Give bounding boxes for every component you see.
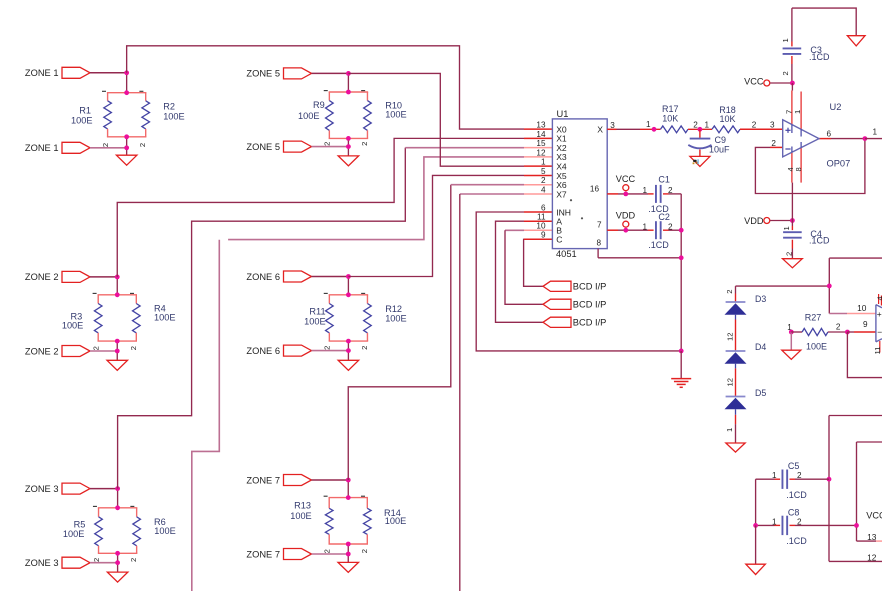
svg-text:10uF: 10uF: [709, 144, 730, 154]
svg-text:ZONE 6: ZONE 6: [246, 272, 280, 282]
svg-text:10K: 10K: [719, 114, 735, 124]
svg-text:3: 3: [610, 121, 615, 130]
svg-text:11: 11: [537, 213, 546, 222]
svg-text:ZONE 2: ZONE 2: [25, 346, 59, 356]
svg-text:10: 10: [857, 303, 867, 313]
svg-text:1: 1: [781, 38, 790, 42]
svg-text:2: 2: [323, 142, 332, 146]
svg-text:1: 1: [725, 428, 734, 432]
svg-text:D4: D4: [755, 342, 766, 352]
svg-text:2: 2: [360, 142, 369, 146]
svg-text:11: 11: [873, 347, 882, 355]
svg-text:100E: 100E: [385, 110, 406, 120]
svg-text:C: C: [556, 235, 562, 245]
svg-text:D5: D5: [755, 388, 766, 398]
svg-text:9: 9: [541, 231, 546, 240]
svg-text:VCC: VCC: [866, 511, 882, 521]
svg-text:2: 2: [360, 346, 369, 350]
svg-text:100E: 100E: [806, 342, 827, 352]
svg-text:2: 2: [771, 139, 776, 148]
svg-text:1: 1: [782, 226, 791, 230]
svg-text:ZONE 7: ZONE 7: [246, 549, 280, 559]
svg-text:1: 1: [642, 186, 647, 195]
svg-text:10K: 10K: [662, 114, 678, 124]
svg-text:4: 4: [541, 185, 546, 194]
svg-text:100E: 100E: [62, 320, 83, 330]
svg-text:13: 13: [867, 532, 877, 542]
svg-text:BCD I/P: BCD I/P: [573, 318, 607, 328]
svg-text:ZONE 7: ZONE 7: [246, 475, 280, 485]
svg-text:VCC: VCC: [616, 174, 636, 184]
svg-text:VDD: VDD: [616, 210, 636, 220]
svg-text:4: 4: [875, 296, 882, 300]
svg-text:12: 12: [867, 552, 877, 562]
svg-text:R9: R9: [313, 100, 325, 110]
svg-text:C8: C8: [788, 508, 800, 518]
svg-text:2: 2: [752, 121, 757, 130]
svg-text:C1: C1: [658, 175, 670, 185]
svg-text:9: 9: [863, 320, 868, 329]
svg-text:1: 1: [541, 158, 546, 167]
svg-text:2: 2: [797, 517, 802, 526]
svg-text:100E: 100E: [71, 116, 92, 126]
svg-text:14: 14: [536, 130, 546, 139]
svg-text:−: −: [877, 327, 882, 337]
svg-text:100E: 100E: [154, 526, 175, 536]
svg-text:OP07: OP07: [827, 159, 851, 169]
svg-text:ZONE 1: ZONE 1: [25, 143, 59, 153]
svg-text:2: 2: [541, 176, 546, 185]
svg-text:R27: R27: [805, 313, 822, 323]
svg-text:1: 1: [705, 120, 710, 129]
svg-text:2: 2: [91, 346, 100, 350]
svg-text:12: 12: [536, 148, 546, 157]
svg-text:1: 1: [772, 517, 777, 526]
svg-text:1: 1: [646, 120, 651, 129]
svg-text:2: 2: [129, 558, 138, 562]
svg-text:100E: 100E: [63, 529, 84, 539]
svg-text:U2: U2: [830, 102, 842, 112]
svg-text:100E: 100E: [154, 312, 175, 322]
svg-text:2: 2: [668, 222, 673, 231]
svg-text:100E: 100E: [385, 516, 406, 526]
svg-text:8: 8: [596, 238, 601, 247]
svg-text:.1CD: .1CD: [809, 52, 830, 62]
svg-text:2: 2: [322, 549, 331, 553]
svg-text:1: 1: [873, 128, 878, 137]
svg-text:ZONE 2: ZONE 2: [25, 272, 59, 282]
svg-text:.1CD: .1CD: [809, 236, 830, 246]
svg-text:2: 2: [781, 71, 790, 75]
svg-text:ZONE 1: ZONE 1: [25, 68, 59, 78]
svg-text:R1: R1: [79, 105, 91, 115]
svg-text:C2: C2: [658, 212, 670, 222]
svg-text:15: 15: [536, 139, 546, 148]
svg-text:6: 6: [541, 203, 546, 212]
svg-text:1: 1: [793, 110, 802, 114]
svg-text:100E: 100E: [290, 511, 311, 521]
svg-text:12: 12: [725, 378, 734, 386]
svg-text:ZONE 3: ZONE 3: [25, 558, 59, 568]
svg-text:2: 2: [668, 186, 673, 195]
svg-text:ZONE 5: ZONE 5: [246, 142, 280, 152]
svg-text:.1CD: .1CD: [648, 240, 669, 250]
svg-text:ZONE 3: ZONE 3: [25, 484, 59, 494]
svg-text:2: 2: [693, 120, 698, 129]
svg-text:2: 2: [725, 290, 734, 294]
svg-text:100E: 100E: [304, 317, 325, 327]
svg-text:4051: 4051: [556, 249, 577, 259]
svg-text:6: 6: [827, 129, 832, 138]
svg-text:U1: U1: [557, 109, 569, 119]
svg-text:VCC: VCC: [744, 77, 764, 87]
svg-text:X: X: [597, 124, 603, 134]
svg-text:2: 2: [323, 346, 332, 350]
svg-text:100E: 100E: [298, 111, 319, 121]
svg-text:R11: R11: [309, 307, 325, 317]
svg-text:.1CD: .1CD: [786, 536, 807, 546]
svg-text:8: 8: [794, 167, 803, 171]
svg-text:10: 10: [536, 222, 546, 231]
svg-text:BCD I/P: BCD I/P: [573, 300, 607, 310]
svg-text:+: +: [877, 309, 882, 319]
svg-text:R13: R13: [294, 501, 311, 511]
svg-text:VDD: VDD: [744, 216, 764, 226]
svg-text:2: 2: [784, 252, 793, 256]
svg-text:2: 2: [101, 143, 110, 147]
svg-text:1: 1: [642, 222, 647, 231]
svg-text:2: 2: [138, 143, 147, 147]
svg-text:5: 5: [541, 167, 546, 176]
svg-text:ZONE 6: ZONE 6: [246, 346, 280, 356]
svg-text:D3: D3: [755, 294, 766, 304]
svg-text:ZONE 5: ZONE 5: [246, 69, 280, 79]
svg-text:C5: C5: [788, 461, 800, 471]
svg-text:2: 2: [129, 346, 138, 350]
svg-text:16: 16: [590, 184, 600, 193]
svg-text:BCD I/P: BCD I/P: [573, 282, 607, 292]
svg-text:3: 3: [770, 121, 775, 130]
svg-text:2: 2: [797, 471, 802, 480]
svg-text:.1CD: .1CD: [786, 490, 807, 500]
svg-text:7: 7: [597, 221, 602, 230]
svg-text:X7: X7: [556, 189, 567, 199]
svg-text:2: 2: [92, 558, 101, 562]
svg-text:13: 13: [536, 121, 546, 130]
svg-text:2: 2: [836, 323, 841, 332]
svg-text:2: 2: [360, 549, 369, 553]
svg-text:100E: 100E: [163, 112, 184, 122]
svg-text:12: 12: [725, 333, 734, 341]
svg-text:R2: R2: [163, 102, 175, 112]
svg-text:100E: 100E: [385, 314, 406, 324]
svg-text:1: 1: [772, 471, 777, 480]
